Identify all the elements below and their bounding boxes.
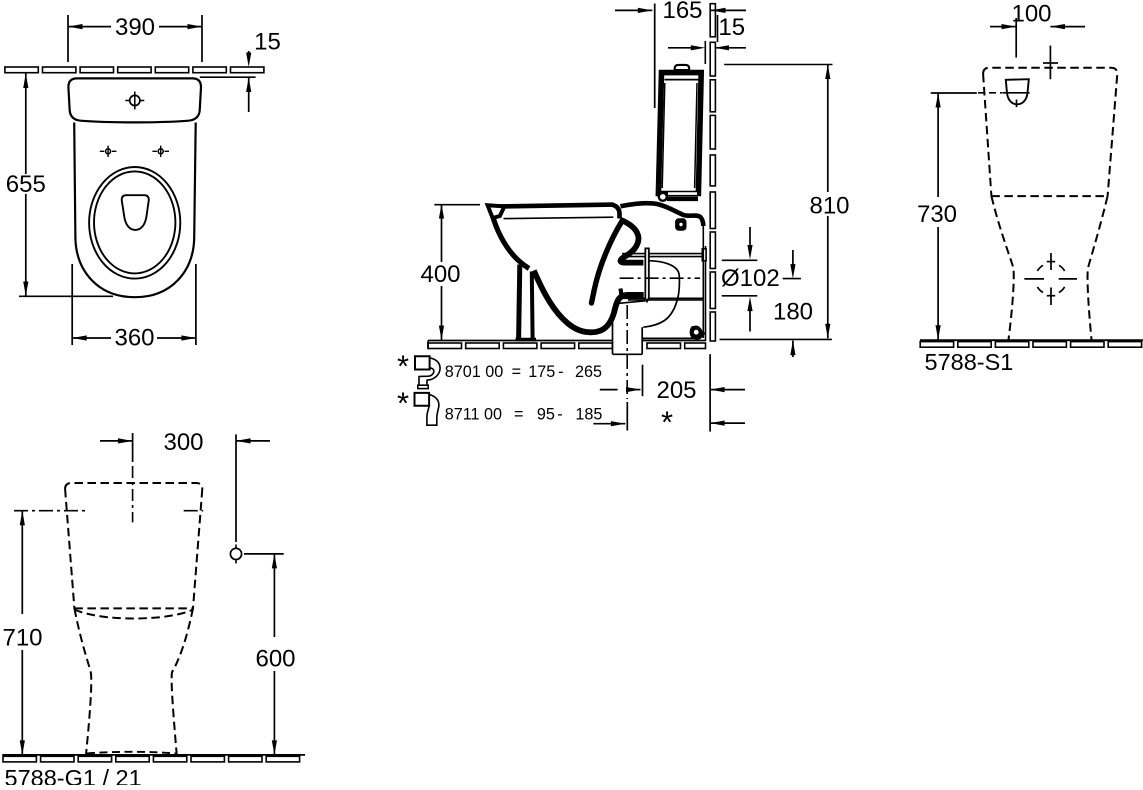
top view: seat outer ring — [89, 167, 180, 279]
top view: left hinge hole mark — [106, 149, 111, 154]
side view: dimension 165 — [615, 9, 652, 11]
top view: dimension 390 — [67, 15, 69, 62]
top view: wall face line — [200, 76, 256, 78]
side view: foot fixing hole — [690, 326, 702, 339]
svg-text:-: - — [558, 363, 563, 381]
svg-text:-: - — [557, 406, 562, 424]
front view S1: bowl dashed outline right — [1088, 196, 1108, 339]
front view S1: dimension 100 — [990, 26, 1003, 28]
side view: seat hinge step — [613, 205, 620, 219]
svg-text:810: 810 — [809, 192, 849, 219]
side view: dimension 205 right extension — [709, 354, 711, 431]
side view: seat hinge bolt — [676, 219, 685, 229]
top view: water surface outline — [122, 195, 149, 230]
side view: outlet centerline vertical — [626, 305, 628, 399]
svg-text:95: 95 — [537, 406, 555, 424]
svg-text:710: 710 — [2, 624, 42, 651]
side view: outlet boss hidden outline — [643, 261, 679, 328]
svg-text:175: 175 — [528, 363, 555, 381]
side view: bowl underside curve to outlet bottom arm — [534, 271, 644, 333]
svg-text:*: * — [397, 349, 409, 384]
front view G1: dimension 300 — [100, 440, 119, 442]
svg-text:100: 100 — [1011, 1, 1051, 28]
side view: dimension 205 lower arrow row — [593, 423, 625, 425]
svg-text:*: * — [661, 405, 673, 440]
side view: horizontal outlet pipe top lines — [622, 253, 704, 255]
side view: floor line — [428, 340, 613, 342]
side view: dimension 810 — [724, 64, 832, 66]
front view S1: dimension 730 — [931, 92, 977, 94]
top view: cistern outline — [68, 78, 201, 122]
front view G1: supply line — [235, 434, 237, 542]
front view S1: bowl dashed outline left — [991, 196, 1013, 339]
top view: flush button crosshair — [130, 95, 140, 105]
side view: dimension diameter 102 — [747, 245, 752, 260]
svg-text:180: 180 — [773, 299, 813, 326]
side view: cistern foot knob — [659, 193, 667, 201]
svg-text:15: 15 — [254, 28, 281, 55]
side view: floor outlet down pipe — [613, 301, 646, 355]
svg-text:5788-G1 / 21: 5788-G1 / 21 — [5, 765, 142, 785]
side view: cistern inner wall left — [662, 83, 665, 188]
side view: cistern body — [658, 73, 701, 194]
top view: wall tile row — [5, 67, 38, 73]
side view: pedestal front leg inner — [530, 272, 535, 340]
side view: wall face line — [705, 246, 707, 341]
front view G1: cistern dashed outline — [65, 483, 202, 608]
side view: inner rim line — [504, 217, 614, 218]
front view G1: bowl dashed outline right — [172, 608, 193, 754]
front view G1: bowl top dashed curve — [74, 610, 193, 619]
svg-text:360: 360 — [114, 325, 154, 352]
front view G1: dimension 710 — [20, 511, 25, 526]
side view: pipe wall flange — [702, 249, 706, 261]
front view G1: toilet centerline — [132, 466, 134, 522]
svg-text:8711 00: 8711 00 — [445, 406, 502, 424]
side view: part row 1 elbow icon — [415, 356, 430, 369]
side view: rim front section — [488, 205, 505, 218]
side view: cistern lid seam — [665, 79, 700, 81]
svg-text:390: 390 — [115, 14, 155, 41]
svg-text:5788-S1: 5788-S1 — [925, 349, 1014, 375]
side view: cistern inner wall right — [695, 83, 697, 188]
front view G1: floor tile row — [3, 756, 36, 762]
front view G1: water level dash-dot right — [184, 510, 204, 512]
top view: seat inner ring — [94, 171, 175, 273]
svg-text:*: * — [397, 386, 409, 421]
side view: cistern bottom seam — [667, 197, 698, 202]
top view: dimension 655 — [23, 74, 28, 89]
front view G1: cistern-bowl joint dashed — [74, 607, 193, 609]
side view: outlet bottom arm left step — [621, 289, 622, 296]
svg-text:15: 15 — [718, 14, 745, 41]
front view G1: water level dash-dot left — [14, 510, 86, 512]
front view S1: cistern dashed outline — [983, 68, 1117, 196]
side view: pedestal base bottom — [642, 337, 700, 339]
front view S1: floor line — [920, 339, 1143, 341]
svg-text:655: 655 — [6, 171, 46, 198]
side view: seat and rim top surface — [488, 205, 614, 207]
side view: bowl front wall (section) — [494, 219, 530, 269]
top view: bowl outer outline — [74, 123, 196, 298]
side view: dimension 180 — [783, 278, 801, 280]
front view S1: flush button — [1006, 79, 1029, 104]
side view: outlet centerline horizontal — [620, 277, 700, 279]
svg-text:300: 300 — [163, 429, 203, 456]
svg-text:165: 165 — [662, 0, 702, 24]
top view: dimension 360 — [71, 264, 73, 345]
side view: cistern lid button — [675, 65, 690, 70]
svg-text:400: 400 — [420, 261, 460, 288]
front view S1: water line dashes — [978, 92, 1002, 94]
side view: bowl back wall to outlet top arm — [620, 220, 643, 263]
side view: outlet flange plate — [645, 248, 649, 301]
side view: part row 2 elbow icon — [415, 393, 430, 406]
front view G1: dimension 600 — [244, 553, 284, 555]
front view S1: cistern-bowl joint dashed — [991, 195, 1107, 197]
side view: flush bend to wall — [621, 203, 704, 226]
side view: wall tile column — [710, 4, 715, 37]
svg-text:600: 600 — [255, 645, 295, 672]
top view: right hinge hole mark — [158, 149, 163, 154]
side view: floor tile row — [428, 343, 462, 349]
front view S1: water supply line — [1049, 46, 1051, 80]
side view: back of pedestal — [702, 224, 704, 338]
front view G1: supply crosshair — [230, 548, 241, 559]
svg-text:=: = — [512, 363, 521, 381]
svg-text:205: 205 — [656, 377, 696, 404]
side view: trap tongue — [592, 221, 623, 303]
front view S1: drain position symbol — [1050, 253, 1052, 270]
svg-text:730: 730 — [917, 201, 957, 228]
svg-text:Ø102: Ø102 — [721, 265, 780, 292]
side view: leg foot — [516, 338, 537, 342]
front view G1: pedestal bottom dashed curve — [87, 752, 176, 754]
svg-text:185: 185 — [575, 406, 602, 424]
side view: dimension 205 upper arrow row — [600, 389, 618, 391]
front view G1: bowl dashed outline left — [74, 608, 91, 754]
front view G1: floor line — [2, 754, 305, 756]
svg-text:8701 00: 8701 00 — [445, 363, 504, 381]
svg-text:265: 265 — [575, 363, 602, 381]
front view S1: floor tile row — [920, 342, 953, 348]
side view: dimension 400 — [434, 204, 480, 206]
side view: horizontal outlet pipe bottom lines — [623, 297, 704, 299]
side view: pedestal front leg outer — [519, 265, 520, 340]
svg-text:=: = — [514, 406, 523, 424]
